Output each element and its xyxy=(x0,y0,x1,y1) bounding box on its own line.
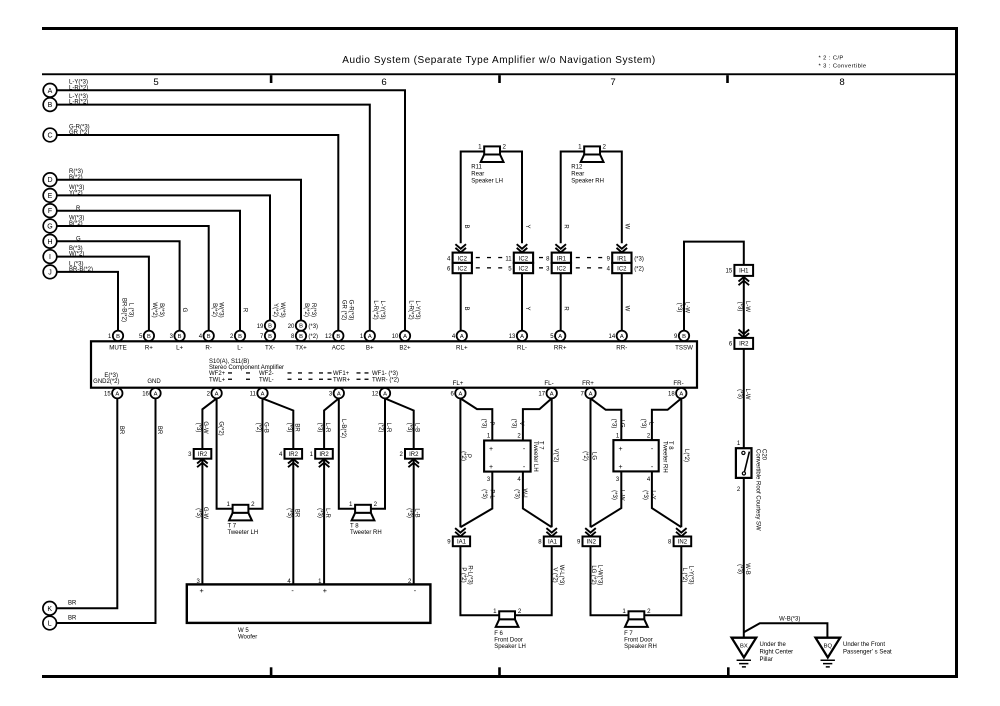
svg-text:G-W: G-W xyxy=(202,507,208,520)
svg-text:2: 2 xyxy=(251,501,255,508)
svg-text:1: 1 xyxy=(578,144,582,151)
svg-text:L (*3): L (*3) xyxy=(127,303,133,317)
border frame right xyxy=(955,27,958,678)
legend notes *2 C/P, *3 Convertible xyxy=(819,56,867,70)
svg-text:11: 11 xyxy=(250,392,257,398)
svg-text:R: R xyxy=(241,308,247,313)
svg-text:L-B(*2): L-B(*2) xyxy=(340,419,346,438)
svg-text:7: 7 xyxy=(610,77,615,88)
svg-text:RL-: RL- xyxy=(517,345,527,352)
svg-text:R11: R11 xyxy=(471,165,482,171)
svg-text:B(*2): B(*2) xyxy=(303,303,309,317)
svg-text:A: A xyxy=(261,391,265,397)
connector pair 4 IC2 / 6 IC2 xyxy=(447,244,472,273)
svg-text:(*3): (*3) xyxy=(481,489,487,499)
svg-text:W(*3): W(*3) xyxy=(279,302,285,317)
svg-text:A: A xyxy=(589,391,593,397)
ruler line with zone ticks xyxy=(42,73,955,83)
svg-text:1: 1 xyxy=(622,608,626,615)
svg-text:A: A xyxy=(215,391,219,397)
svg-text:2: 2 xyxy=(374,501,378,508)
svg-text:A: A xyxy=(368,334,372,340)
svg-text:Audio System (Separate Type Am: Audio System (Separate Type Amplifier w/… xyxy=(342,55,655,66)
svg-text:K: K xyxy=(47,606,52,613)
wire from H to amplifier (x=179.6) xyxy=(57,241,180,330)
svg-text:15: 15 xyxy=(104,392,111,398)
wire pin6(A) to front tweeter T7 pin1 (P *3) xyxy=(460,398,493,440)
svg-text:1: 1 xyxy=(226,501,230,508)
wire IC2 to amplifier RL+ (B) xyxy=(461,273,469,330)
svg-text:6: 6 xyxy=(381,77,386,88)
svg-text:A: A xyxy=(679,391,683,397)
wire IR1 to amplifier RR+ (R) xyxy=(561,273,569,330)
svg-text:LG: LG xyxy=(618,419,624,427)
svg-text:L-W: L-W xyxy=(744,301,750,312)
wire pin17(A) to junction 8 IA1 (V *2) xyxy=(552,398,559,527)
svg-text:WF2-: WF2- xyxy=(259,371,274,377)
svg-text:B: B xyxy=(238,334,242,340)
svg-text:19: 19 xyxy=(257,324,264,330)
junction 4 IR2 xyxy=(279,449,302,467)
svg-text:WF2+: WF2+ xyxy=(209,371,226,377)
connector circle G xyxy=(43,215,84,232)
svg-text:Front Door: Front Door xyxy=(624,638,653,644)
svg-text:W-B(*3): W-B(*3) xyxy=(779,617,800,623)
svg-text:A: A xyxy=(550,391,554,397)
amplifier stacked pin 19(B) above TX- xyxy=(257,320,275,330)
connector circle I xyxy=(43,246,84,263)
svg-text:(*3): (*3) xyxy=(514,489,520,499)
svg-text:Tweeter RH: Tweeter RH xyxy=(661,441,667,473)
svg-text:E(*3): E(*3) xyxy=(104,373,118,379)
svg-text:(*3): (*3) xyxy=(511,419,517,429)
ground BX Under the Right Center Pillar xyxy=(732,638,794,667)
svg-text:R+: R+ xyxy=(145,345,153,352)
wire IH1 to IR2 (L-W *3) xyxy=(736,276,750,338)
front tweeter T7 LH box xyxy=(484,441,544,472)
wire colour labels above ACC pin xyxy=(341,300,354,321)
svg-text:BR: BR xyxy=(68,601,77,607)
svg-text:(*2): (*2) xyxy=(460,451,466,461)
wire TSSW to junction IH1 (L-W *3) xyxy=(676,242,744,331)
svg-text:FL-: FL- xyxy=(544,380,553,387)
wire switch to ground BX (W-B *3) xyxy=(736,478,750,638)
wire pin12(A) to junction 2 IR2 (L-B *3) xyxy=(385,398,420,449)
svg-text:Y(*2): Y(*2) xyxy=(272,303,278,317)
svg-text:15: 15 xyxy=(726,269,733,275)
svg-text:P: P xyxy=(488,421,494,425)
svg-text:12: 12 xyxy=(325,334,332,340)
wire 9 IA1 to speaker F6 pin1 (R-L *3 / P *2) xyxy=(460,546,499,615)
wire colour labels above TX+ pin xyxy=(303,303,316,317)
svg-text:A: A xyxy=(558,334,562,340)
svg-text:TX+: TX+ xyxy=(295,345,307,352)
wire colour labels above B+ pin xyxy=(372,300,385,319)
svg-text:(*3): (*3) xyxy=(286,508,292,518)
svg-text:+: + xyxy=(199,586,203,595)
wire IR2 to courtesy switch (L-W *3) xyxy=(736,349,750,448)
wire IR1 to amplifier RR- (W) xyxy=(622,273,630,330)
svg-text:B: B xyxy=(336,334,340,340)
svg-text:B: B xyxy=(48,102,53,109)
svg-text:FR+: FR+ xyxy=(582,380,594,387)
svg-text:IC2: IC2 xyxy=(557,267,567,273)
svg-text:W 5: W 5 xyxy=(238,628,249,634)
svg-text:Passenger’ s Seat: Passenger’ s Seat xyxy=(843,650,892,656)
front door speaker F7 RH symbol xyxy=(622,608,656,650)
svg-text:14: 14 xyxy=(609,334,616,340)
svg-text:W: W xyxy=(624,224,630,230)
svg-text:IR2: IR2 xyxy=(409,452,419,458)
svg-text:1: 1 xyxy=(493,608,497,615)
front door speaker F6 LH symbol xyxy=(493,608,526,650)
svg-text:(*3): (*3) xyxy=(286,423,292,433)
front tweeter T8 RH box xyxy=(613,440,673,473)
svg-text:W-L(*3): W-L(*3) xyxy=(558,565,564,586)
svg-text:B(*3): B(*3) xyxy=(158,303,164,317)
amplifier bottom pin 17(A) xyxy=(538,388,556,398)
svg-text:T 8: T 8 xyxy=(350,524,359,530)
svg-text:(*2): (*2) xyxy=(634,267,644,273)
svg-text:G-W: G-W xyxy=(202,421,208,434)
svg-text:Under the: Under the xyxy=(760,642,787,648)
amplifier top pin 8(B) TX+ xyxy=(291,331,307,352)
svg-text:L-: L- xyxy=(237,345,243,352)
amplifier top pin 3(B) L+ xyxy=(170,331,185,352)
svg-text:IR2: IR2 xyxy=(289,452,299,458)
svg-text:Speaker RH: Speaker RH xyxy=(571,179,604,185)
svg-text:B+: B+ xyxy=(366,345,374,352)
svg-text:10: 10 xyxy=(392,334,399,340)
junction 8 IA1 xyxy=(538,528,561,546)
svg-text:G-R(*3): G-R(*3) xyxy=(347,300,353,321)
svg-text:(*3): (*3) xyxy=(736,389,742,399)
svg-text:TWL+: TWL+ xyxy=(209,377,226,383)
svg-text:B: B xyxy=(463,306,469,310)
svg-text:(*3): (*3) xyxy=(634,256,644,262)
svg-text:IR2: IR2 xyxy=(198,452,208,458)
svg-text:17: 17 xyxy=(538,392,545,398)
svg-text:Front Door: Front Door xyxy=(494,638,523,644)
svg-text:ACC: ACC xyxy=(332,345,346,352)
svg-text:+: + xyxy=(618,446,622,453)
bottom border zone ticks xyxy=(270,667,730,675)
amplifier top pin 13(A) RL- xyxy=(509,331,527,352)
svg-text:L-W: L-W xyxy=(684,302,690,313)
svg-text:W(*3): W(*3) xyxy=(218,302,224,317)
svg-text:B: B xyxy=(299,324,303,330)
svg-text:Stereo Component Amplifier: Stereo Component Amplifier xyxy=(209,365,284,371)
wire pin7(A) to junction 9 IN2 (LG *2) xyxy=(582,398,597,527)
wire from B to amplifier (x=369.8) xyxy=(57,105,370,331)
wire pin18(A) to junction 8 IN2 (L *2) xyxy=(681,398,689,527)
amplifier bottom pin 16(A) xyxy=(142,388,160,398)
svg-text:(*3): (*3) xyxy=(317,423,323,433)
svg-text:+: + xyxy=(489,464,493,471)
svg-text:R12: R12 xyxy=(571,165,583,171)
amplifier bottom pin 6(A) xyxy=(450,388,465,398)
svg-text:BR: BR xyxy=(118,426,124,435)
amplifier top pin 4(A) RL+ xyxy=(452,331,468,352)
amplifier bottom pin 12(A) xyxy=(372,388,390,398)
wire pin2(A) to tweeter T7 pin1 (G *2) xyxy=(217,398,233,508)
svg-text:R-: R- xyxy=(205,345,212,352)
svg-text:(*3): (*3) xyxy=(308,324,318,330)
connector circle H xyxy=(43,235,81,249)
svg-text:IN2: IN2 xyxy=(678,540,688,546)
svg-text:IH1: IH1 xyxy=(739,269,749,275)
wire colour labels above TX- pin xyxy=(272,302,285,317)
wire front tweeter T7 pin3 to 9 IA1 (P-L *3) xyxy=(460,472,494,528)
wire 3 IR2 to woofer pin3 (G-W *3) xyxy=(195,459,208,585)
svg-text:IC2: IC2 xyxy=(617,267,627,273)
svg-text:A: A xyxy=(460,334,464,340)
svg-text:A: A xyxy=(337,391,341,397)
amplifier top pin 14(A) RR- xyxy=(609,331,628,352)
amplifier bottom pin 3(A) xyxy=(329,388,344,398)
svg-text:G-B: G-B xyxy=(263,422,269,433)
wire front tweeter T8 pin3 to 9 IN2 (L-W *3) xyxy=(591,471,625,527)
junction 3 IR2 xyxy=(188,449,211,467)
svg-text:B(*2): B(*2) xyxy=(211,303,217,317)
wire from D to amplifier (x=301.0) xyxy=(57,180,301,321)
svg-text:IR2: IR2 xyxy=(739,342,749,348)
svg-text:GND: GND xyxy=(147,379,161,385)
svg-text:R: R xyxy=(563,306,569,311)
svg-text:I: I xyxy=(49,254,51,261)
svg-text:H: H xyxy=(47,239,52,246)
svg-text:G: G xyxy=(181,308,187,313)
svg-text:Speaker RH: Speaker RH xyxy=(624,644,657,650)
connector circle B xyxy=(43,94,88,111)
connector circle F xyxy=(43,204,81,218)
amplifier top pin 1(B) MUTE xyxy=(108,331,127,352)
amplifier top pin 1(A) B+ xyxy=(360,331,375,352)
svg-text:A: A xyxy=(115,391,119,397)
svg-text:(*3): (*3) xyxy=(640,419,646,429)
svg-text:L-B: L-B xyxy=(414,423,420,432)
wire pin18(A) to front tweeter T8 pin2 (L *3) xyxy=(640,398,681,440)
wire from C to amplifier (x=338.3) xyxy=(57,135,339,331)
svg-text:P (*2): P (*2) xyxy=(460,567,466,582)
svg-text:C: C xyxy=(47,133,52,140)
svg-text:R-L(*3): R-L(*3) xyxy=(467,565,473,584)
svg-text:IC2: IC2 xyxy=(519,256,529,262)
svg-text:L-Y(*3): L-Y(*3) xyxy=(687,565,693,584)
svg-text:BR: BR xyxy=(68,615,77,621)
amplifier top pin 5(A) RR+ xyxy=(550,331,567,352)
svg-text:E: E xyxy=(48,193,53,200)
svg-text:2: 2 xyxy=(647,608,651,615)
svg-text:L-Y(*3): L-Y(*3) xyxy=(379,300,385,319)
wire 1 IR2 to woofer pin1 (L-R *3) xyxy=(317,459,331,585)
svg-text:A: A xyxy=(403,334,407,340)
svg-text:(*3): (*3) xyxy=(611,490,617,500)
svg-text:(*2): (*2) xyxy=(308,334,318,340)
svg-text:Speaker LH: Speaker LH xyxy=(471,179,503,185)
svg-text:1: 1 xyxy=(478,144,482,151)
amplifier bottom pin 11(A) xyxy=(250,388,268,398)
wire pin2(A) to junction 3 IR2 (G-W *3) xyxy=(195,398,217,449)
amplifier bottom pin 18(A) xyxy=(668,388,686,398)
tweeter T8 RH symbol (woofer circuit) xyxy=(349,501,382,536)
svg-text:IC2: IC2 xyxy=(458,267,468,273)
svg-text:F: F xyxy=(48,208,52,215)
svg-text:Under the Front: Under the Front xyxy=(843,642,885,648)
svg-text:(*3): (*3) xyxy=(317,508,323,518)
svg-text:B2+: B2+ xyxy=(399,345,411,352)
svg-text:Y: Y xyxy=(524,224,530,228)
woofer W 5 box xyxy=(187,584,431,640)
svg-text:(*3): (*3) xyxy=(480,419,486,429)
svg-text:1: 1 xyxy=(349,501,353,508)
svg-text:(*3): (*3) xyxy=(642,490,648,500)
tweeter T7 LH symbol (woofer circuit) xyxy=(226,501,258,536)
svg-text:B: B xyxy=(682,334,686,340)
svg-text:B: B xyxy=(147,334,151,340)
svg-text:RR-: RR- xyxy=(616,345,627,352)
svg-text:13: 13 xyxy=(509,334,516,340)
svg-text:L-W(*3): L-W(*3) xyxy=(597,565,603,586)
svg-text:TWL-: TWL- xyxy=(259,377,274,383)
svg-text:LG (*2): LG (*2) xyxy=(590,565,596,584)
svg-text:(*2): (*2) xyxy=(255,423,261,433)
connector pair 8 IR1 / 3 IC2 xyxy=(546,244,571,273)
svg-text:(*3): (*3) xyxy=(676,303,682,313)
svg-text:(*3): (*3) xyxy=(195,423,201,433)
wire R12 pin2 to connector IR1 (W) xyxy=(600,152,630,244)
svg-text:L (*2): L (*2) xyxy=(681,568,687,582)
svg-text:A: A xyxy=(154,391,158,397)
svg-text:(*3): (*3) xyxy=(736,564,742,574)
svg-text:BQ: BQ xyxy=(824,643,833,649)
wire L to amplifier pin 16 (BR) xyxy=(57,399,163,623)
svg-text:Speaker LH: Speaker LH xyxy=(494,644,526,650)
dashed connector tie lines xyxy=(476,257,602,269)
svg-text:IR1: IR1 xyxy=(557,256,567,262)
wire 4 IR2 to woofer pin4 (BR *3) xyxy=(286,459,300,585)
wire 8 IA1 to speaker F6 pin2 (W-L *3 / V *2) xyxy=(515,546,564,615)
svg-text:Rear: Rear xyxy=(471,172,484,178)
svg-text:V: V xyxy=(518,421,524,425)
svg-text:A: A xyxy=(520,334,524,340)
svg-text:BX: BX xyxy=(740,643,748,649)
svg-text:P-L: P-L xyxy=(489,489,495,499)
svg-text:B: B xyxy=(268,334,272,340)
svg-text:W(*2): W(*2) xyxy=(151,302,157,317)
connector circle K xyxy=(43,601,77,616)
svg-text:L-Y(*3): L-Y(*3) xyxy=(414,300,420,319)
svg-text:IN2: IN2 xyxy=(587,540,597,546)
junction 2 IR2 xyxy=(399,449,422,467)
amplifier top pin 5(B) R+ xyxy=(139,331,154,352)
svg-text:2: 2 xyxy=(602,144,606,151)
svg-text:* 2 : C/P: * 2 : C/P xyxy=(819,56,844,62)
wire pin11(A) to junction 4 IR2 (BR *3) xyxy=(263,398,300,449)
svg-text:+: + xyxy=(323,586,327,595)
svg-text:(*3): (*3) xyxy=(406,508,412,518)
wire from J to amplifier (x=118.0) xyxy=(57,272,118,331)
svg-text:RR+: RR+ xyxy=(554,345,567,352)
svg-text:W-L: W-L xyxy=(521,489,527,501)
svg-text:16: 16 xyxy=(142,392,149,398)
wire pin17(A) to front tweeter T7 pin2 (V *3) xyxy=(511,398,552,440)
svg-text:(*2): (*2) xyxy=(378,423,384,433)
svg-text:D: D xyxy=(47,177,52,184)
svg-text:GND2(*2): GND2(*2) xyxy=(93,379,119,385)
amplifier bottom pin 7(A) xyxy=(581,388,596,398)
wire from E to amplifier (x=270.0) xyxy=(57,195,270,320)
svg-text:B: B xyxy=(116,334,120,340)
svg-text:(*3): (*3) xyxy=(736,302,742,312)
svg-text:L-Y: L-Y xyxy=(649,490,655,499)
svg-text:BR: BR xyxy=(293,509,299,518)
svg-text:A: A xyxy=(48,88,53,95)
connector circle D xyxy=(43,169,83,186)
svg-text:Rear: Rear xyxy=(571,172,584,178)
svg-text:WF1+: WF1+ xyxy=(333,371,350,377)
junction 1 IR2 xyxy=(310,449,333,467)
svg-text:A: A xyxy=(458,391,462,397)
junction 8 IN2 xyxy=(668,528,691,546)
svg-text:(*3): (*3) xyxy=(611,419,617,429)
svg-text:+: + xyxy=(489,446,493,453)
svg-text:V(*2): V(*2) xyxy=(552,449,558,463)
wire pin11(A) to tweeter T7 pin2 (G-B *2) xyxy=(248,398,269,508)
svg-text:Y: Y xyxy=(524,306,530,310)
svg-text:L(*2): L(*2) xyxy=(683,449,689,462)
wire 2 IR2 to woofer pin2 (L-B *3) xyxy=(406,459,420,585)
svg-text:BR-B(*2): BR-B(*2) xyxy=(121,298,127,322)
amplifier S10(A) S11(B) Stereo Component Amplifier box xyxy=(91,341,697,387)
amplifier bottom pin 15(A) xyxy=(104,388,122,398)
connector pair 9 IR1 / 4 IC2 with (*3)(*2) xyxy=(607,244,644,273)
wire 9 IN2 to speaker F7 pin1 (L-W *3 / LG *2) xyxy=(590,546,628,615)
svg-text:TWR+: TWR+ xyxy=(333,377,351,383)
svg-text:F 7: F 7 xyxy=(624,631,633,637)
wire from I to amplifier (x=148.9) xyxy=(57,257,149,331)
wire from A to amplifier (x=405.0) xyxy=(57,90,405,330)
svg-text:L-R: L-R xyxy=(324,508,330,518)
rear speaker R12 RH symbol xyxy=(571,144,606,185)
svg-text:L: L xyxy=(48,621,52,628)
svg-text:L-W: L-W xyxy=(619,490,625,501)
svg-text:Woofer: Woofer xyxy=(238,635,257,641)
svg-text:A: A xyxy=(383,391,387,397)
svg-text:W-B: W-B xyxy=(744,563,750,575)
svg-text:Right Center: Right Center xyxy=(760,650,794,656)
svg-text:GR (*2): GR (*2) xyxy=(341,300,347,320)
wire front tweeter T8 pin4 to 8 IN2 (L-Y *3) xyxy=(642,471,681,527)
svg-text:G(*2): G(*2) xyxy=(217,421,223,435)
svg-text:12: 12 xyxy=(372,392,379,398)
svg-text:20: 20 xyxy=(288,324,295,330)
amplifier top pin 10(A) B2+ xyxy=(392,331,411,352)
svg-text:RL+: RL+ xyxy=(456,345,468,352)
svg-text:2: 2 xyxy=(502,144,506,151)
border frame top xyxy=(42,27,958,30)
wire R12 pin1 to connector IR1 (R) xyxy=(561,152,585,244)
wire pin7(A) to front tweeter T8 pin1 (LG *3) xyxy=(591,398,625,440)
svg-text:G: G xyxy=(47,224,52,231)
connector circle A xyxy=(43,80,88,97)
junction 6 IR2 xyxy=(729,330,753,349)
amplifier bottom pin names FL+ FL- FR+ FR- xyxy=(453,380,684,387)
svg-text:BR: BR xyxy=(156,426,162,435)
wire colour labels above B2+ pin xyxy=(407,300,420,319)
svg-text:B: B xyxy=(207,334,211,340)
svg-text:BR: BR xyxy=(293,423,299,432)
